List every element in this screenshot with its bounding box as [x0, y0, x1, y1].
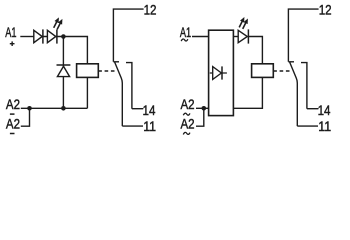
- label 11 right: [318, 119, 331, 134]
- tilde under right first A2: [183, 113, 190, 115]
- node A1 (left, DC +): [5, 25, 16, 40]
- plus sign under A1: [10, 41, 15, 46]
- node A2 (left, first): [6, 97, 20, 112]
- contact 14 hook left: [126, 63, 132, 109]
- svg-text:11: 11: [143, 119, 156, 134]
- dashed mechanical link right: [273, 70, 290, 72]
- svg-text:A2: A2: [181, 97, 195, 112]
- minus sign under first A2: [10, 113, 15, 115]
- LED V2: [47, 29, 57, 43]
- wire through diodes to node: [34, 36, 64, 38]
- minus sign under second A2: [10, 133, 15, 135]
- svg-text:A2: A2: [6, 97, 20, 112]
- svg-text:A2: A2: [181, 117, 195, 132]
- terminal 12 stub left: [113, 9, 143, 62]
- svg-text:11: 11: [318, 119, 331, 134]
- diode V1: [34, 29, 43, 43]
- terminal 11 stub left: [122, 125, 143, 127]
- contact lever left: [115, 62, 123, 126]
- wire coil bottom to rail: [86, 77, 88, 108]
- terminal 11 stub right: [297, 125, 318, 127]
- junction dot freewheel branch: [61, 106, 66, 111]
- svg-text:A2: A2: [6, 117, 20, 132]
- LED arrows right: [239, 17, 248, 29]
- svg-text:12: 12: [144, 3, 157, 18]
- LED arrows: [54, 17, 63, 29]
- node A2 (left, second): [6, 117, 20, 132]
- freewheeling diode V3: [57, 65, 71, 77]
- dashed mechanical link left: [98, 70, 115, 72]
- rectifier box: [209, 30, 234, 115]
- wire right second A2 up: [196, 108, 204, 126]
- wire LED to coil right: [248, 37, 262, 64]
- tilde under right second A2: [183, 132, 190, 134]
- node A1 (right, AC): [180, 25, 191, 40]
- junction dot right A2: [202, 106, 207, 111]
- node A2 (right, first): [181, 97, 195, 112]
- wire right A1 to rectifier: [192, 36, 209, 38]
- contact pivot tick right: [288, 61, 294, 63]
- wire right A2 to rectifier: [196, 107, 209, 109]
- junction dot A2 link: [27, 106, 32, 111]
- wire node down through freewheel diode: [62, 37, 64, 109]
- wire second A2 up to rail: [21, 108, 30, 126]
- junction node after LED: [61, 34, 66, 39]
- label 14 left: [143, 103, 156, 118]
- terminal 12 stub right: [288, 9, 318, 62]
- svg-text:12: 12: [319, 3, 332, 18]
- label 12 left: [144, 3, 157, 18]
- wire coil bottom to rectifier right side: [233, 77, 262, 108]
- contact 14 hook right: [301, 63, 307, 109]
- terminal 14 stub right: [307, 108, 319, 110]
- wire rectifier to LED: [233, 36, 238, 38]
- rectifier diode inside: [210, 66, 227, 79]
- label 11 left: [143, 119, 156, 134]
- wire A1 to diode chain: [20, 36, 34, 38]
- node A2 (right, second): [181, 117, 195, 132]
- bottom rail A2: [21, 107, 88, 109]
- label 12 right: [319, 3, 332, 18]
- wire node to coil branch: [63, 37, 87, 64]
- svg-text:14: 14: [143, 103, 156, 118]
- label 14 right: [318, 103, 331, 118]
- svg-text:14: 14: [318, 103, 331, 118]
- svg-text:A1: A1: [5, 25, 16, 40]
- tilde under right A1: [181, 39, 188, 41]
- relay coil K1: [77, 64, 99, 78]
- terminal 14 stub left: [132, 108, 143, 110]
- relay coil K2 right: [252, 64, 274, 78]
- LED V4 right: [238, 29, 248, 43]
- svg-text:A1: A1: [180, 25, 191, 40]
- contact lever right: [290, 62, 298, 126]
- contact pivot tick left: [113, 61, 119, 63]
